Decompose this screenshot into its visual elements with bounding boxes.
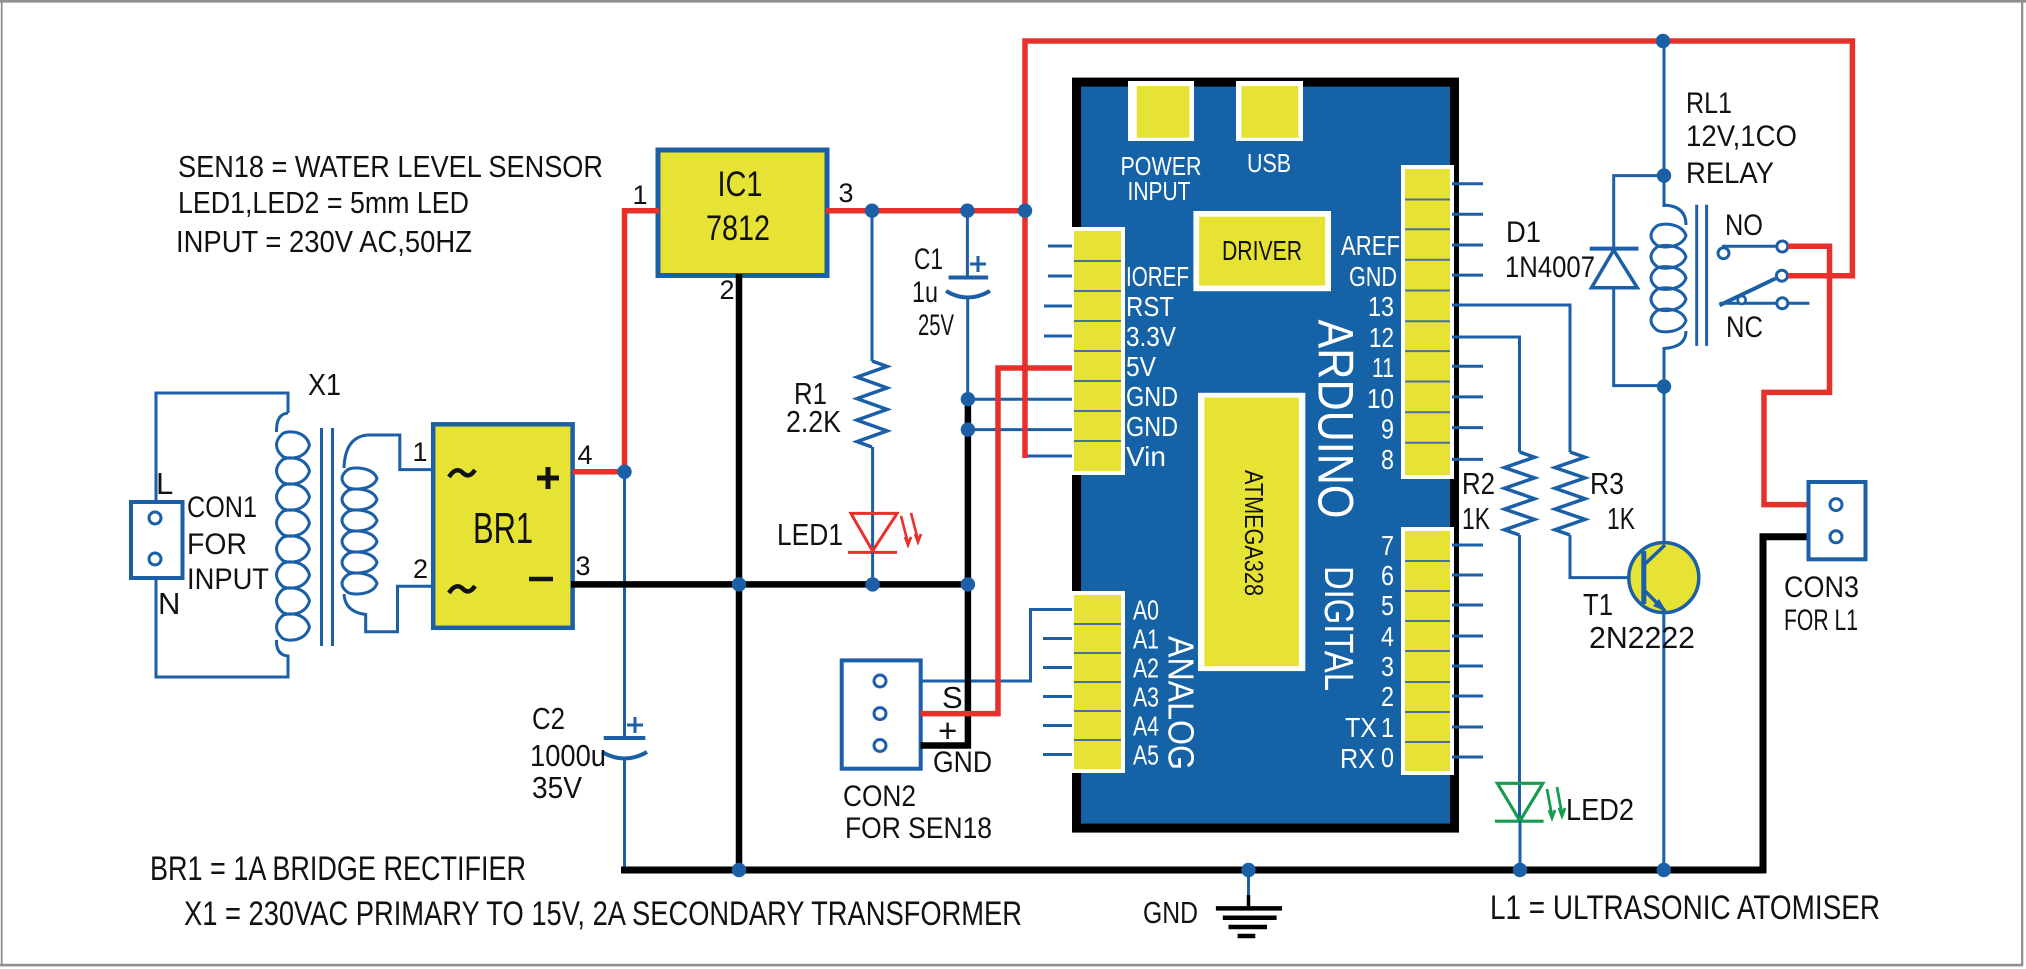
svg-text:12: 12 [1369, 322, 1394, 353]
svg-text:RST: RST [1126, 291, 1174, 322]
LED2 [1518, 535, 1521, 821]
svg-text:NC: NC [1726, 311, 1763, 344]
svg-text:2.2K: 2.2K [786, 404, 841, 439]
relay NC contact [1720, 302, 1777, 305]
voltage regulator IC1 7812 [658, 150, 827, 276]
svg-text:INPUT: INPUT [187, 563, 269, 596]
svg-text:11: 11 [1372, 352, 1394, 383]
red wire BR1+ to IC1 input [573, 211, 659, 472]
svg-text:FOR SEN18: FOR SEN18 [845, 812, 992, 845]
svg-text:N: N [158, 586, 180, 621]
power pin header (left) [1070, 227, 1125, 475]
Arduino board U2 [1077, 82, 1455, 828]
connector CON3 [1809, 482, 1866, 559]
svg-text:1K: 1K [1607, 501, 1635, 536]
svg-text:5: 5 [1381, 590, 1394, 621]
relay RL1 coil [1663, 41, 1666, 207]
capacitor C1 [966, 211, 969, 278]
LED1 [871, 447, 874, 552]
svg-text:A3: A3 [1133, 682, 1159, 713]
bridge rectifier BR1 [433, 424, 572, 628]
svg-text:RX: RX [1340, 743, 1375, 774]
C2 plus sign [627, 724, 643, 727]
svg-text:6: 6 [1381, 560, 1394, 591]
stub wires analog header A1-A5 [1043, 637, 1072, 640]
wire ground vertical to CON2 [921, 399, 968, 745]
svg-text:RL1: RL1 [1686, 87, 1732, 120]
svg-text:IC1: IC1 [718, 165, 763, 204]
svg-text:A5: A5 [1133, 740, 1159, 771]
red wire 5V to CON2 plus [921, 368, 1072, 714]
svg-text:1N4007: 1N4007 [1505, 251, 1595, 284]
svg-text:SEN18 = WATER LEVEL SENSOR: SEN18 = WATER LEVEL SENSOR [178, 149, 603, 184]
svg-text:TX: TX [1345, 712, 1377, 743]
relay common pole contact [1776, 270, 1787, 281]
svg-text:X1: X1 [308, 367, 341, 402]
svg-text:GND: GND [1349, 261, 1397, 292]
svg-text:0: 0 [1381, 742, 1394, 773]
svg-text:INPUT = 230V AC,50HZ: INPUT = 230V AC,50HZ [176, 224, 472, 259]
digital pin header (right-top) [1401, 165, 1454, 479]
transistor T1 2N2222 [1629, 543, 1699, 613]
svg-text:9: 9 [1381, 414, 1394, 445]
svg-text:1: 1 [1381, 712, 1394, 743]
svg-text:R2: R2 [1462, 466, 1495, 501]
svg-text:2: 2 [413, 554, 428, 584]
transformer X1 core [320, 428, 323, 646]
USB connector on board [1236, 81, 1303, 141]
svg-text:2: 2 [719, 275, 734, 305]
svg-text:7: 7 [1381, 530, 1394, 561]
red wire 12V riser to top [1025, 41, 1852, 458]
capacitor C2 [623, 472, 626, 736]
svg-text:1u: 1u [912, 276, 938, 309]
svg-text:Vin: Vin [1126, 441, 1166, 472]
ground symbol GND [1247, 870, 1250, 895]
junction dots [865, 204, 879, 218]
GND pin stub wires [968, 398, 1072, 401]
svg-text:BR1 = 1A BRIDGE RECTIFIER: BR1 = 1A BRIDGE RECTIFIER [150, 850, 526, 888]
digital pin header (right-bottom) [1401, 527, 1454, 775]
connector CON1 [131, 502, 183, 578]
svg-text:ATMEGA328: ATMEGA328 [1239, 470, 1269, 596]
svg-text:DRIVER: DRIVER [1222, 235, 1302, 266]
svg-text:10: 10 [1367, 383, 1394, 414]
svg-text:GND: GND [1143, 895, 1198, 930]
Vin stub wire [1027, 455, 1072, 458]
driver IC on board [1193, 211, 1331, 291]
svg-text:IOREF: IOREF [1126, 261, 1189, 292]
svg-text:4: 4 [1381, 621, 1394, 652]
BR1 plus symbol [537, 476, 559, 481]
svg-text:C2: C2 [532, 701, 565, 736]
svg-text:L: L [156, 466, 173, 501]
svg-text:A2: A2 [1133, 653, 1159, 684]
svg-text:2N2222: 2N2222 [1589, 620, 1695, 655]
connector CON2 [842, 660, 921, 768]
svg-text:DIGITAL: DIGITAL [1316, 566, 1362, 691]
ground bus wire [621, 867, 1766, 874]
svg-text:2: 2 [1381, 681, 1394, 712]
svg-text:CON3: CON3 [1784, 571, 1859, 604]
resistor R1 [871, 211, 874, 361]
svg-text:1: 1 [632, 180, 647, 210]
svg-text:S: S [942, 680, 963, 715]
svg-text:4: 4 [577, 440, 592, 470]
transformer X1 secondary winding [344, 435, 368, 468]
svg-text:A4: A4 [1133, 711, 1159, 742]
BR1 minus symbol [529, 577, 553, 582]
svg-text:LED2: LED2 [1566, 792, 1634, 827]
svg-text:GND: GND [1126, 381, 1178, 412]
stub wires left power header [1048, 245, 1072, 248]
wire IC1 pin2 ground [736, 274, 743, 870]
ATMEGA328 IC on board [1198, 393, 1305, 671]
svg-text:1000u: 1000u [530, 738, 606, 773]
svg-text:L1 = ULTRASONIC ATOMISER: L1 = ULTRASONIC ATOMISER [1490, 889, 1880, 927]
svg-text:USB: USB [1247, 148, 1291, 178]
svg-text:ARDUINO: ARDUINO [1308, 320, 1364, 519]
transformer X1 primary winding [156, 393, 288, 502]
svg-text:RELAY: RELAY [1686, 157, 1774, 190]
relay NO contact [1722, 245, 1777, 248]
svg-text:1: 1 [412, 437, 427, 467]
svg-text:FOR: FOR [187, 528, 247, 561]
svg-text:R3: R3 [1590, 466, 1624, 501]
svg-text:LED1: LED1 [777, 517, 843, 552]
red wire IC1 output rail [826, 208, 1025, 214]
svg-text:5V: 5V [1126, 351, 1156, 382]
svg-text:D1: D1 [1506, 216, 1541, 249]
svg-text:A0: A0 [1133, 595, 1159, 626]
relay core [1695, 205, 1698, 346]
svg-text:35V: 35V [532, 770, 582, 805]
svg-text:25V: 25V [918, 309, 954, 342]
analog pin header (left-bottom) [1070, 591, 1125, 773]
resistor R3 [1452, 305, 1570, 452]
svg-text:3: 3 [838, 178, 853, 208]
svg-text:GND: GND [933, 746, 992, 779]
wire BR1 minus rail [571, 581, 968, 588]
svg-text:ANALOG: ANALOG [1161, 636, 1202, 770]
wire secondary pin1 to BR1 [368, 435, 434, 470]
svg-text:CON1: CON1 [187, 491, 257, 524]
C1 plus sign [970, 263, 986, 266]
svg-text:C1: C1 [914, 243, 943, 276]
svg-text:12V,1CO: 12V,1CO [1686, 120, 1797, 153]
svg-text:CON2: CON2 [843, 780, 916, 813]
svg-text:8: 8 [1381, 444, 1394, 475]
power input connector on board [1128, 81, 1194, 141]
svg-text:3: 3 [575, 551, 590, 581]
svg-text:T1: T1 [1583, 587, 1613, 622]
stub wires right lower header [1452, 544, 1483, 547]
svg-text:AREF: AREF [1341, 230, 1400, 261]
red wire NO contact to CON3 [1764, 246, 1830, 504]
svg-text:X1 = 230VAC PRIMARY TO 15V, 2A: X1 = 230VAC PRIMARY TO 15V, 2A SECONDARY… [184, 895, 1022, 933]
relay moving arm [1720, 279, 1776, 306]
resistor R2 [1452, 337, 1520, 452]
svg-text:1K: 1K [1462, 501, 1490, 536]
svg-text:3: 3 [1381, 651, 1394, 682]
svg-text:LED1,LED2 = 5mm LED: LED1,LED2 = 5mm LED [178, 185, 469, 220]
svg-text:13: 13 [1368, 291, 1394, 322]
svg-text:7812: 7812 [706, 209, 770, 248]
svg-text:3.3V: 3.3V [1126, 321, 1176, 352]
svg-text:BR1: BR1 [473, 504, 533, 553]
svg-text:NO: NO [1725, 209, 1763, 242]
wire CON3 to ground bus [1763, 537, 1809, 873]
svg-text:INPUT: INPUT [1128, 176, 1191, 206]
svg-text:A1: A1 [1133, 624, 1159, 655]
svg-text:GND: GND [1126, 411, 1178, 442]
wire CON2 S to A0 [921, 610, 1072, 682]
stub wires right upper header [1452, 182, 1483, 185]
diode D1 1N4007 [1614, 176, 1664, 249]
svg-text:FOR L1: FOR L1 [1784, 604, 1858, 637]
